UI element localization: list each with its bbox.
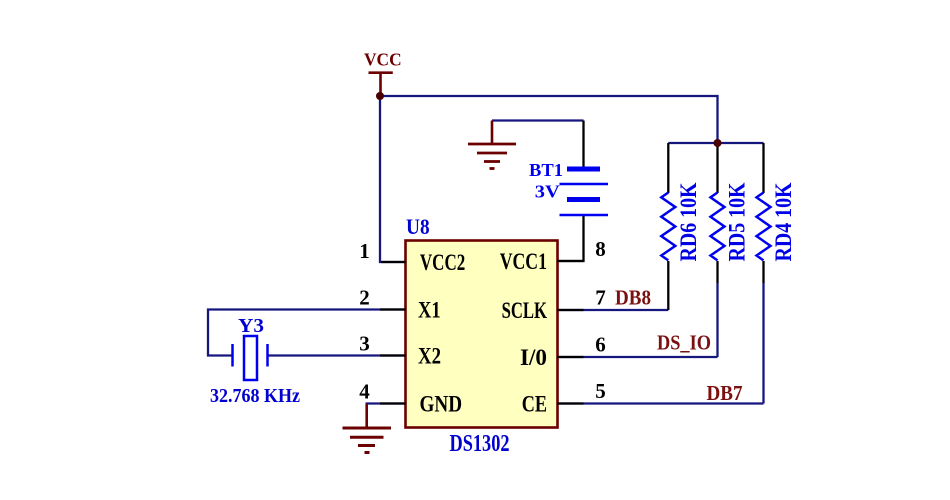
- wire pin6 to RD5: [557, 356, 718, 358]
- svg-text:RD4 10K: RD4 10K: [771, 182, 796, 261]
- svg-text:VCC2: VCC2: [420, 250, 465, 275]
- svg-text:2: 2: [359, 286, 370, 310]
- node junction at resistor bus: [714, 139, 722, 147]
- battery BT1: [529, 160, 608, 215]
- wire pin7 to RD6: [557, 309, 668, 311]
- svg-text:SCLK: SCLK: [502, 298, 547, 323]
- wire pin5 to RD4: [557, 402, 764, 404]
- node junction at VCC: [376, 92, 384, 100]
- wire battery bottom to pin8: [557, 216, 584, 261]
- svg-text:DB7: DB7: [707, 381, 743, 405]
- svg-text:1: 1: [359, 239, 370, 263]
- pin 1 VCC2: [359, 239, 465, 275]
- svg-text:X2: X2: [418, 344, 441, 369]
- svg-text:BT1: BT1: [529, 160, 563, 180]
- wire RD5 bottom lead: [716, 261, 718, 283]
- wire pin2 to crystal left: [208, 310, 405, 356]
- pin 4 GND: [359, 380, 462, 417]
- pin 8 VCC1: [500, 237, 606, 274]
- svg-text:8: 8: [595, 237, 606, 261]
- wire VCC rail top: [380, 96, 718, 143]
- power symbol VCC: [364, 50, 402, 96]
- svg-text:6: 6: [595, 333, 606, 357]
- svg-text:U8: U8: [406, 214, 430, 239]
- svg-text:32.768 KHz: 32.768 KHz: [210, 385, 300, 407]
- wire RD6 bottom lead: [667, 261, 669, 310]
- wire RD6 top lead: [667, 143, 669, 193]
- ground (battery): [468, 121, 516, 169]
- svg-text:I/0: I/0: [520, 345, 547, 370]
- svg-text:DS1302: DS1302: [450, 431, 510, 457]
- op-amp U8 DS1302 body: [406, 214, 558, 457]
- pin 7 SCLK: [502, 286, 606, 324]
- wire resistor bus: [668, 142, 763, 144]
- wire RD4 top lead: [762, 143, 764, 193]
- resistor RD4 10K: [757, 182, 797, 261]
- svg-text:DS_IO: DS_IO: [657, 331, 711, 355]
- wire RD5 top lead: [716, 143, 718, 193]
- svg-text:3V: 3V: [535, 182, 560, 202]
- wire left rail to pin1: [380, 96, 405, 262]
- crystal Y3: [210, 315, 300, 407]
- svg-text:Y3: Y3: [238, 315, 264, 337]
- wire battery top pin: [582, 121, 584, 168]
- svg-text:CE: CE: [522, 392, 547, 417]
- wire pin4 to ground: [367, 404, 405, 428]
- wire crystal right to pin3: [269, 354, 406, 356]
- svg-text:RD5 10K: RD5 10K: [725, 182, 750, 261]
- pin 3 X2: [359, 332, 441, 369]
- svg-text:RD6 10K: RD6 10K: [676, 182, 701, 261]
- svg-text:DB8: DB8: [615, 286, 651, 310]
- ground (pin 4): [343, 404, 392, 453]
- svg-text:X1: X1: [418, 298, 441, 323]
- wire RD4 bottom lead: [762, 261, 764, 283]
- svg-text:VCC: VCC: [364, 50, 402, 70]
- svg-text:4: 4: [359, 380, 370, 404]
- resistor RD5 10K: [711, 182, 750, 261]
- svg-text:VCC1: VCC1: [500, 249, 547, 274]
- resistor RD6 10K: [661, 182, 701, 261]
- svg-text:3: 3: [359, 332, 370, 356]
- wire ground to battery: [492, 119, 584, 121]
- pin 6 I/0: [520, 333, 606, 371]
- pin 5 CE: [522, 379, 606, 417]
- svg-text:7: 7: [595, 286, 606, 310]
- pin 2 X1: [359, 286, 440, 323]
- svg-text:GND: GND: [420, 392, 463, 417]
- svg-text:5: 5: [595, 379, 606, 403]
